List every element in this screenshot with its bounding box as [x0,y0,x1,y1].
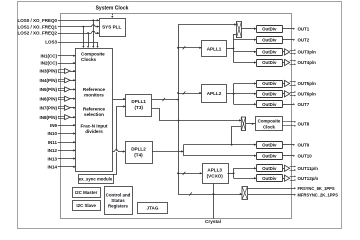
svg-text:(T4): (T4) [134,152,143,157]
svg-text:IN7(P/N): IN7(P/N) [39,106,57,111]
svg-text:LOS1 / XO_FREQ1: LOS1 / XO_FREQ1 [17,24,57,29]
svg-text:OutDiv: OutDiv [262,166,277,171]
svg-text:OUT8: OUT8 [298,122,310,127]
svg-text:APLL1: APLL1 [207,47,222,52]
svg-text:IN13: IN13 [47,156,57,161]
svg-text:OutDiv: OutDiv [262,92,277,97]
svg-text:OUT4p/n: OUT4p/n [298,60,317,65]
svg-text:(VCXO): (VCXO) [207,173,224,178]
svg-text:Frac-N input: Frac-N input [80,124,108,129]
svg-text:OUT2: OUT2 [298,37,310,42]
svg-text:Registers: Registers [108,204,129,209]
svg-text:OutDiv: OutDiv [262,154,277,159]
svg-text:Composite: Composite [81,52,105,57]
svg-text:OutDiv: OutDiv [262,142,277,147]
svg-text:OUT12p/n: OUT12p/n [298,176,319,181]
svg-text:LOS0 / XO_FREQ0: LOS0 / XO_FREQ0 [17,18,57,23]
svg-text:MFRSYNC_2K_1PPS: MFRSYNC_2K_1PPS [298,192,339,197]
svg-text:IN8(P/N): IN8(P/N) [39,115,57,120]
svg-text:OUT11p/n: OUT11p/n [298,166,319,171]
svg-text:Status: Status [111,198,125,203]
svg-text:DPLL2: DPLL2 [131,147,146,152]
svg-text:OUT5p/n: OUT5p/n [298,81,317,86]
svg-text:OutDiv: OutDiv [262,176,277,181]
svg-text:I2C Slave: I2C Slave [76,203,96,208]
svg-text:LOS2 / XO_FREQ2: LOS2 / XO_FREQ2 [17,31,57,36]
svg-text:JTAG: JTAG [147,206,159,211]
svg-text:IN9: IN9 [50,123,58,128]
svg-text:Clock: Clock [263,124,276,129]
svg-text:OUT3p/n: OUT3p/n [298,50,317,55]
svg-text:LOS3: LOS3 [45,40,57,45]
svg-text:OUT10: OUT10 [298,154,313,159]
svg-text:Control and: Control and [106,193,131,198]
svg-text:I2C Master: I2C Master [75,190,97,195]
svg-text:OUT6p/n: OUT6p/n [298,92,317,97]
svg-text:Clocks: Clocks [81,57,97,62]
svg-text:monitors: monitors [84,93,104,98]
svg-text:DPLL1: DPLL1 [131,99,146,104]
svg-text:OutDiv: OutDiv [262,50,277,55]
svg-text:Crystal: Crystal [205,219,221,224]
svg-text:dividers: dividers [85,129,103,134]
svg-text:IN5(P/N): IN5(P/N) [39,87,57,92]
svg-text:OutDiv: OutDiv [262,27,277,32]
svg-text:FRSYNC_8K_1PPS: FRSYNC_8K_1PPS [298,186,335,191]
svg-text:ex_sync module: ex_sync module [79,177,113,182]
svg-text:System Clock: System Clock [96,6,129,12]
svg-text:IN14: IN14 [47,165,57,170]
svg-text:IN4(P/N): IN4(P/N) [39,78,57,83]
svg-text:IN12: IN12 [47,148,57,153]
svg-text:(T3): (T3) [134,105,143,110]
svg-text:OUT7: OUT7 [298,102,310,107]
svg-text:OUT1: OUT1 [298,27,310,32]
svg-text:Reference: Reference [83,107,106,112]
svg-text:APLL3: APLL3 [207,168,222,173]
svg-text:OutDiv: OutDiv [262,37,277,42]
svg-text:IN1(CC): IN1(CC) [41,54,58,59]
svg-text:APLL2: APLL2 [207,91,222,96]
svg-text:IN10: IN10 [47,131,57,136]
svg-text:IN11: IN11 [48,140,58,145]
svg-text:IN3(P/N): IN3(P/N) [39,69,57,74]
svg-text:IN2(CC): IN2(CC) [41,61,58,66]
svg-text:SYS PLL: SYS PLL [102,25,121,30]
svg-text:selection: selection [84,112,104,117]
svg-text:Composite: Composite [258,119,281,124]
svg-text:OutDiv: OutDiv [262,60,277,65]
svg-text:OutDiv: OutDiv [262,81,277,86]
svg-text:OutDiv: OutDiv [262,102,277,107]
svg-text:Reference: Reference [83,87,106,92]
svg-text:IN6(P/N): IN6(P/N) [39,96,57,101]
svg-text:OUT9: OUT9 [298,142,310,147]
